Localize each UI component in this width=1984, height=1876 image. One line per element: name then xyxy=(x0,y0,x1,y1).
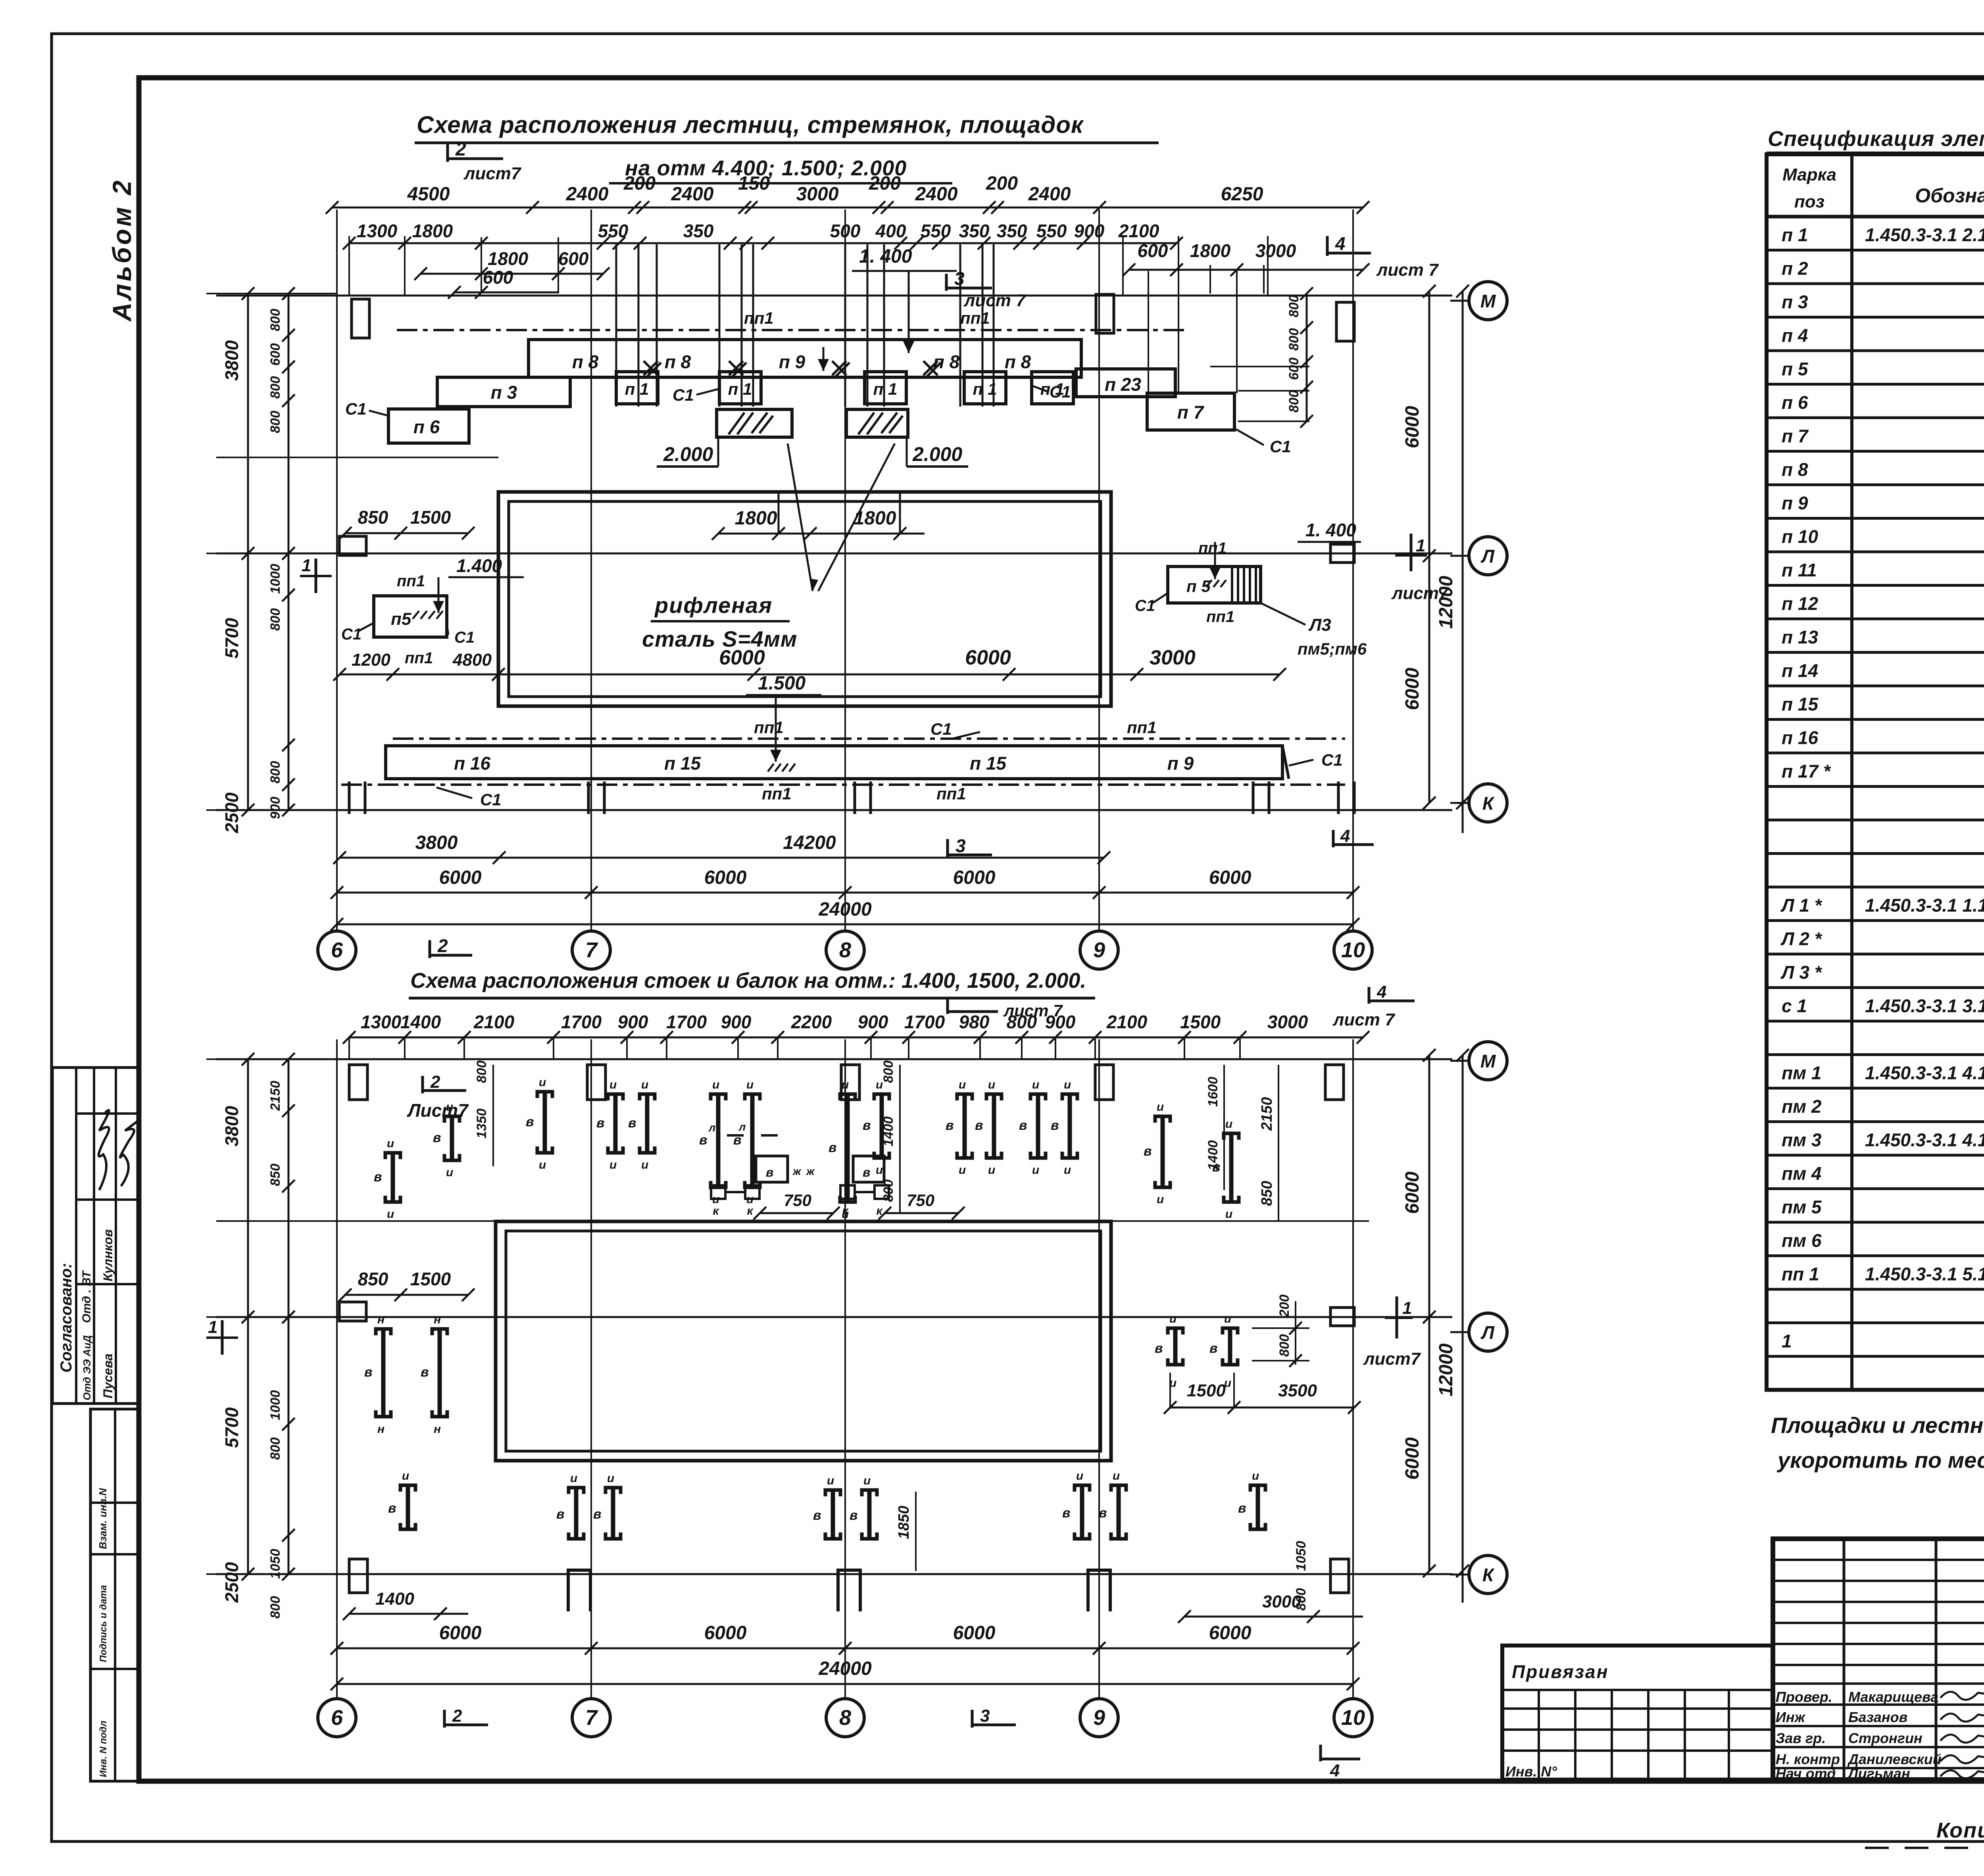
steel post (I-beam) xyxy=(1224,1133,1239,1140)
svg-text:в: в xyxy=(526,1114,534,1129)
svg-text:1400: 1400 xyxy=(375,1589,414,1609)
svg-text:пп1: пп1 xyxy=(1206,608,1234,626)
svg-text:в: в xyxy=(1062,1505,1071,1521)
svg-text:п 1: п 1 xyxy=(1782,225,1808,245)
hatch crosses on walkway xyxy=(644,361,658,375)
svg-text:К: К xyxy=(1482,1565,1495,1585)
svg-text:Схема расположения лестниц: Схема расположения лестниц, стремянок, п… xyxy=(417,111,1084,138)
hatch mark under 1.500 arrow xyxy=(768,764,774,772)
svg-text:п 14: п 14 xyxy=(1782,661,1818,681)
axis row M line (bottom) xyxy=(216,1058,1452,1060)
svg-text:800: 800 xyxy=(268,761,283,783)
svg-text:в: в xyxy=(556,1507,565,1522)
svg-text:Л: Л xyxy=(1480,546,1495,566)
svg-text:Л 1 *: Л 1 * xyxy=(1780,895,1823,916)
svg-text:и: и xyxy=(959,1164,966,1177)
svg-text:4: 4 xyxy=(1340,826,1350,846)
svg-text:в: в xyxy=(975,1118,983,1133)
axis circle 6 xyxy=(318,1699,356,1737)
svg-text:С1: С1 xyxy=(1270,437,1291,456)
svg-text:и: и xyxy=(570,1472,577,1485)
svg-text:Схема расположения стоек и б: Схема расположения стоек и балок на отм.… xyxy=(410,969,1086,993)
svg-text:Альбом 2: Альбом 2 xyxy=(107,178,136,322)
platform П5 right xyxy=(1168,566,1261,603)
svg-text:С1: С1 xyxy=(930,720,952,738)
svg-text:лист 7: лист 7 xyxy=(1376,260,1439,280)
svg-text:1500: 1500 xyxy=(410,1269,451,1289)
svg-text:600: 600 xyxy=(558,248,589,269)
axis line 9 xyxy=(1098,209,1100,933)
svg-text:и: и xyxy=(1032,1164,1039,1177)
steel post (I-beam) xyxy=(745,1094,760,1100)
svg-text:10: 10 xyxy=(1341,1706,1365,1730)
svg-text:550: 550 xyxy=(921,221,951,241)
svg-text:200: 200 xyxy=(1277,1294,1292,1317)
svg-text:в: в xyxy=(421,1365,429,1380)
svg-text:850: 850 xyxy=(358,507,388,528)
svg-text:пм 1: пм 1 xyxy=(1782,1063,1822,1083)
axis row K line xyxy=(216,809,1452,811)
svg-text:в: в xyxy=(829,1140,837,1155)
svg-text:в: в xyxy=(813,1508,821,1523)
svg-text:150: 150 xyxy=(738,173,770,194)
svg-text:и: и xyxy=(387,1137,394,1150)
svg-text:и: и xyxy=(402,1469,409,1482)
svg-text:900: 900 xyxy=(618,1012,648,1032)
column marks at row Л xyxy=(339,536,366,555)
top dim row 1 line xyxy=(332,207,1363,209)
sheet marker 2 (bottom drawing bottom) xyxy=(443,1710,446,1728)
svg-text:600: 600 xyxy=(268,343,283,366)
sub-row line 3800 boundary (top) xyxy=(216,457,498,458)
svg-text:и: и xyxy=(1157,1193,1164,1206)
svg-text:1700: 1700 xyxy=(561,1012,602,1032)
svg-text:и: и xyxy=(539,1076,546,1089)
svg-text:800: 800 xyxy=(268,1596,283,1619)
svg-text:Инж: Инж xyxy=(1776,1709,1806,1725)
svg-text:в: в xyxy=(1019,1118,1027,1133)
svg-text:п 23: п 23 xyxy=(1105,374,1141,395)
small column rects row K bottom xyxy=(349,1559,367,1593)
svg-text:п 13: п 13 xyxy=(1782,627,1818,647)
svg-text:в: в xyxy=(374,1169,382,1185)
steel post (I-beam) xyxy=(1030,1094,1046,1100)
svg-text:н: н xyxy=(377,1423,384,1436)
svg-text:п 3: п 3 xyxy=(1782,292,1808,312)
svg-text:1000: 1000 xyxy=(268,1390,283,1420)
axis circle 6 xyxy=(318,931,356,969)
svg-text:Отд . ВТ: Отд . ВТ xyxy=(80,1270,93,1323)
svg-text:С1: С1 xyxy=(673,386,694,404)
big tank opening (bottom, double rect) xyxy=(496,1221,1111,1461)
extension verticals bottom dim row xyxy=(348,1037,350,1059)
svg-text:к: к xyxy=(713,1204,719,1217)
axis line 9 xyxy=(1098,1039,1100,1700)
svg-text:п 15: п 15 xyxy=(1782,694,1819,714)
steel post (I-beam) xyxy=(640,1094,655,1100)
svg-text:лист7: лист7 xyxy=(463,164,522,183)
svg-text:800: 800 xyxy=(1286,295,1302,317)
svg-text:Л 2 *: Л 2 * xyxy=(1780,929,1823,949)
svg-text:1850: 1850 xyxy=(896,1505,912,1539)
svg-text:и: и xyxy=(1252,1469,1259,1482)
svg-text:в: в xyxy=(850,1508,858,1523)
svg-text:9: 9 xyxy=(1093,938,1105,962)
svg-text:1.450.3-3.1 4.1.2.1.0 -05: 1.450.3-3.1 4.1.2.1.0 -05 xyxy=(1865,1130,1984,1150)
svg-text:12000: 12000 xyxy=(1436,1343,1457,1396)
svg-text:1.450.3-3.1 2.1.1.0.0: 1.450.3-3.1 2.1.1.0.0 xyxy=(1865,225,1984,245)
right vertical dim 12000 (bottom) xyxy=(1462,1055,1464,1603)
svg-text:и: и xyxy=(1064,1164,1071,1177)
svg-text:с 1: с 1 xyxy=(1782,996,1807,1016)
svg-text:1200: 1200 xyxy=(352,650,390,670)
svg-text:п 9: п 9 xyxy=(779,351,806,372)
svg-text:1050: 1050 xyxy=(1294,1541,1309,1571)
svg-text:7: 7 xyxy=(585,1706,598,1730)
svg-text:сталь S=4мм: сталь S=4мм xyxy=(642,626,797,651)
section marker 1 right (bottom) xyxy=(1385,1317,1413,1319)
svg-text:Подпись и дата: Подпись и дата xyxy=(98,1585,109,1662)
svg-text:укоротить по месту.: укоротить по месту. xyxy=(1776,1448,1984,1473)
right sub-dim column 800/800/600/800 xyxy=(1306,294,1308,421)
axis line 6 xyxy=(336,209,338,933)
svg-text:600: 600 xyxy=(1138,240,1168,261)
svg-text:1500: 1500 xyxy=(1180,1012,1221,1032)
column marks at row Л (bottom) xyxy=(339,1302,366,1321)
svg-text:п 5: п 5 xyxy=(1782,359,1809,379)
svg-text:в: в xyxy=(1099,1505,1107,1521)
platform П6 xyxy=(388,409,469,443)
svg-text:2.000: 2.000 xyxy=(912,443,962,465)
svg-text:350: 350 xyxy=(997,221,1027,241)
axis row M line xyxy=(216,295,1452,297)
left extension lines bottom drawing xyxy=(206,1058,337,1060)
spec table grid xyxy=(1767,154,1984,1390)
svg-text:1.400: 1.400 xyxy=(456,555,502,576)
svg-text:пп1: пп1 xyxy=(754,718,784,737)
section marker 1 right xyxy=(1395,554,1427,557)
svg-text:и: и xyxy=(876,1164,883,1177)
svg-text:2100: 2100 xyxy=(1118,221,1159,241)
svg-text:К: К xyxy=(1482,793,1495,814)
svg-text:п 8: п 8 xyxy=(1782,459,1808,480)
svg-text:л: л xyxy=(738,1121,746,1133)
I-beams row Л left xyxy=(376,1329,391,1335)
svg-text:2.000: 2.000 xyxy=(663,443,713,465)
axis line 10 xyxy=(1352,209,1354,933)
svg-text:4800: 4800 xyxy=(452,650,492,670)
svg-text:в: в xyxy=(628,1116,636,1131)
svg-text:8: 8 xyxy=(839,938,851,962)
svg-text:Кулнков: Кулнков xyxy=(101,1229,115,1281)
svg-text:2500: 2500 xyxy=(221,1562,242,1603)
sheet marker 4 bottom drawing top right xyxy=(1368,987,1371,1004)
svg-text:к: к xyxy=(747,1204,754,1217)
axis row Л line xyxy=(216,553,1452,555)
svg-text:в: в xyxy=(863,1165,870,1179)
svg-text:800: 800 xyxy=(268,1437,283,1460)
top dim row 2 line xyxy=(349,242,1177,244)
axis line 7 xyxy=(590,209,592,933)
column marks at row M xyxy=(352,299,369,338)
svg-text:Базанов: Базанов xyxy=(1848,1709,1907,1725)
svg-text:6000: 6000 xyxy=(704,1623,747,1644)
svg-text:Данилевский: Данилевский xyxy=(1847,1751,1942,1767)
stair opening boxes (hatched) xyxy=(717,409,792,437)
svg-text:пм 2: пм 2 xyxy=(1782,1096,1822,1117)
svg-text:пп1: пп1 xyxy=(744,309,774,327)
svg-text:п 6: п 6 xyxy=(1782,392,1808,413)
I-beams row Л right xyxy=(1168,1328,1183,1335)
axis circle Л xyxy=(1450,555,1468,557)
svg-text:и: и xyxy=(1224,1312,1231,1325)
svg-text:4500: 4500 xyxy=(407,184,450,205)
svg-text:Марка: Марка xyxy=(1782,165,1836,184)
svg-text:6000: 6000 xyxy=(1402,668,1423,710)
svg-text:в: в xyxy=(433,1130,441,1145)
svg-text:1.450.3-3.1 4.1.1.1.0 -04: 1.450.3-3.1 4.1.1.1.0 -04 xyxy=(1865,1063,1984,1083)
lower platform strip xyxy=(386,746,1282,779)
svg-text:2200: 2200 xyxy=(791,1012,832,1032)
svg-text:1050: 1050 xyxy=(268,1549,283,1579)
svg-text:пп1: пп1 xyxy=(762,784,792,803)
svg-text:и: и xyxy=(1157,1100,1164,1114)
svg-text:в: в xyxy=(1238,1501,1246,1516)
svg-text:6: 6 xyxy=(331,1706,343,1730)
svg-text:пп1: пп1 xyxy=(1198,540,1227,557)
svg-text:900: 900 xyxy=(1045,1012,1076,1032)
svg-text:лист7: лист7 xyxy=(1391,584,1450,603)
svg-text:4: 4 xyxy=(1335,233,1346,254)
svg-text:п 1: п 1 xyxy=(625,380,649,398)
axis circle К xyxy=(1450,802,1468,804)
svg-text:лист7: лист7 xyxy=(1363,1349,1421,1369)
svg-text:Л: Л xyxy=(1480,1322,1495,1343)
axis circle М xyxy=(1450,1060,1468,1062)
svg-text:1350: 1350 xyxy=(474,1108,489,1139)
svg-text:1.450.3-3.1 1.1.1.0.0 -16: 1.450.3-3.1 1.1.1.0.0 -16 xyxy=(1865,895,1984,916)
svg-text:п 11: п 11 xyxy=(1782,560,1817,580)
approval block Согласовано xyxy=(52,1068,139,1404)
svg-text:Инв. N°: Инв. N° xyxy=(1505,1763,1557,1780)
svg-text:пм5;пм6: пм5;пм6 xyxy=(1298,639,1367,658)
svg-text:п 17 *: п 17 * xyxy=(1782,761,1831,782)
platform П5 left xyxy=(374,596,447,637)
staff signatures xyxy=(1940,1692,1984,1700)
svg-text:Зав гр.: Зав гр. xyxy=(1776,1730,1826,1746)
svg-text:и: и xyxy=(988,1164,995,1177)
svg-text:Л3: Л3 xyxy=(1308,615,1331,635)
svg-text:900: 900 xyxy=(268,797,283,819)
upper walkway band xyxy=(529,340,1081,377)
beam box row M 2 xyxy=(853,1156,884,1182)
svg-text:6000: 6000 xyxy=(1402,1171,1423,1214)
svg-text:2150: 2150 xyxy=(1259,1097,1275,1131)
svg-text:3000: 3000 xyxy=(1255,240,1296,261)
svg-text:в: в xyxy=(766,1165,773,1179)
svg-text:поз: поз xyxy=(1794,192,1824,211)
svg-text:800: 800 xyxy=(268,411,283,433)
axis circle 10 xyxy=(1334,931,1372,969)
svg-text:в: в xyxy=(1209,1341,1218,1356)
axis circle 10 xyxy=(1334,1699,1372,1737)
svg-text:М: М xyxy=(1480,291,1496,311)
svg-text:н: н xyxy=(377,1313,384,1326)
svg-text:6000: 6000 xyxy=(439,867,482,888)
svg-text:1: 1 xyxy=(302,556,311,575)
svg-text:1800: 1800 xyxy=(488,248,529,269)
axis line 6 xyxy=(336,1039,338,1700)
svg-text:200: 200 xyxy=(986,173,1018,194)
axis circle 9 xyxy=(1080,931,1118,969)
svg-text:в: в xyxy=(1144,1144,1152,1159)
column marks at row M (bottom) xyxy=(349,1065,367,1100)
steel post (I-beam) xyxy=(385,1153,400,1159)
steel post (I-beam) xyxy=(957,1094,972,1100)
svg-text:850: 850 xyxy=(358,1269,388,1289)
steel post (I-beam) xyxy=(840,1094,855,1100)
svg-text:Стронгин: Стронгин xyxy=(1848,1730,1922,1746)
svg-text:5700: 5700 xyxy=(221,618,242,659)
svg-text:4: 4 xyxy=(1330,1761,1340,1780)
svg-text:Л 3 *: Л 3 * xyxy=(1780,962,1823,983)
svg-text:10: 10 xyxy=(1341,938,1365,962)
svg-text:6000: 6000 xyxy=(1209,867,1252,888)
svg-text:350: 350 xyxy=(959,221,990,241)
sheet marker 2 bottom drawing xyxy=(421,1076,424,1093)
svg-text:6250: 6250 xyxy=(1221,184,1263,205)
svg-text:п 3: п 3 xyxy=(491,382,517,403)
svg-text:С1: С1 xyxy=(480,790,502,809)
section marker 1 left (bottom) xyxy=(206,1336,238,1339)
bottom dim row line xyxy=(349,1037,1363,1039)
platform П7 xyxy=(1147,393,1234,430)
svg-text:и: и xyxy=(1032,1078,1039,1091)
svg-text:Спецификация элементов к схе: Спецификация элементов к схеме, располож… xyxy=(1768,127,1984,151)
axis circle 8 xyxy=(826,1699,864,1737)
sheet marker 3 bottom xyxy=(946,839,949,858)
svg-text:пп1: пп1 xyxy=(960,309,990,327)
svg-text:550: 550 xyxy=(1036,221,1067,241)
svg-text:п 8: п 8 xyxy=(572,351,599,372)
svg-text:п 6: п 6 xyxy=(413,417,440,437)
svg-text:Привязан: Привязан xyxy=(1512,1661,1609,1682)
П7 leader verticals xyxy=(1148,271,1149,393)
axis line 8 xyxy=(844,209,846,933)
svg-text:Лигьман: Лигьман xyxy=(1847,1765,1910,1782)
svg-text:800: 800 xyxy=(474,1060,489,1083)
svg-text:п5: п5 xyxy=(391,609,411,629)
svg-text:800: 800 xyxy=(1286,328,1302,351)
svg-text:Нач отд: Нач отд xyxy=(1776,1765,1836,1782)
svg-text:пп1: пп1 xyxy=(397,572,425,590)
svg-text:и: и xyxy=(1064,1078,1071,1091)
svg-text:850: 850 xyxy=(1259,1181,1275,1206)
sheet marker 3 xyxy=(945,274,948,291)
svg-text:л: л xyxy=(708,1121,715,1134)
svg-text:и: и xyxy=(1076,1469,1083,1482)
svg-text:пп1: пп1 xyxy=(405,649,433,667)
axis circle М xyxy=(1450,300,1468,302)
section marker 1 left xyxy=(300,575,332,577)
svg-text:850: 850 xyxy=(268,1164,283,1186)
sheet marker 3 (bottom drawing bottom) xyxy=(971,1710,974,1728)
svg-text:2500: 2500 xyxy=(221,792,242,833)
svg-text:п 15: п 15 xyxy=(970,753,1007,774)
svg-text:рифленая: рифленая xyxy=(654,593,773,618)
svg-text:и: и xyxy=(446,1166,453,1179)
svg-text:Обозначение: Обозначение xyxy=(1915,184,1984,207)
svg-text:и: и xyxy=(1225,1118,1232,1131)
svg-text:и: и xyxy=(863,1474,871,1487)
axis line 10 xyxy=(1352,1039,1354,1700)
right vertical dim 12000 xyxy=(1462,291,1464,833)
walkway centreline ПП1 (dash-dot) xyxy=(397,329,1186,331)
svg-text:и: и xyxy=(1113,1469,1120,1482)
svg-text:С1: С1 xyxy=(345,399,367,418)
svg-text:2: 2 xyxy=(430,1072,440,1092)
svg-text:ж: ж xyxy=(806,1165,815,1177)
steel post (I-beam) xyxy=(444,1116,459,1123)
svg-text:600: 600 xyxy=(1286,357,1302,380)
svg-text:Пусева: Пусева xyxy=(101,1354,115,1398)
svg-text:6000: 6000 xyxy=(704,867,747,888)
svg-text:Провер.: Провер. xyxy=(1776,1689,1832,1705)
svg-text:лист 7: лист 7 xyxy=(1332,1010,1396,1029)
svg-text:750: 750 xyxy=(784,1191,811,1210)
svg-text:800: 800 xyxy=(268,309,283,331)
beam box row M xyxy=(756,1156,788,1182)
svg-text:в: в xyxy=(364,1365,373,1380)
svg-text:800: 800 xyxy=(881,1060,896,1083)
svg-text:1500: 1500 xyxy=(410,507,451,528)
axis circle 9 xyxy=(1080,1699,1118,1737)
svg-text:3000: 3000 xyxy=(1150,646,1196,669)
axis circle Л xyxy=(1450,1331,1468,1333)
svg-text:3500: 3500 xyxy=(1278,1381,1317,1400)
svg-text:в: в xyxy=(946,1118,954,1133)
svg-text:1: 1 xyxy=(1416,536,1425,555)
svg-text:1. 400: 1. 400 xyxy=(1305,520,1356,540)
svg-text:1800: 1800 xyxy=(735,508,777,529)
svg-text:С1: С1 xyxy=(341,626,361,643)
svg-text:п 10: п 10 xyxy=(1782,526,1818,547)
svg-text:пм 6: пм 6 xyxy=(1782,1230,1822,1251)
svg-text:980: 980 xyxy=(959,1012,990,1032)
axis line 8 xyxy=(844,1039,846,1700)
svg-text:Взам. инв.N: Взам. инв.N xyxy=(97,1488,109,1549)
svg-text:800: 800 xyxy=(268,608,283,631)
svg-text:2150: 2150 xyxy=(268,1081,283,1111)
steel post (I-beam) xyxy=(1062,1094,1077,1100)
svg-text:1400: 1400 xyxy=(400,1012,441,1032)
svg-text:в: в xyxy=(1051,1118,1059,1133)
svg-text:С1: С1 xyxy=(1135,597,1155,614)
svg-text:1500: 1500 xyxy=(1187,1381,1226,1400)
svg-text:и: и xyxy=(959,1078,966,1091)
svg-text:6: 6 xyxy=(331,938,343,962)
svg-text:3800: 3800 xyxy=(221,340,242,381)
svg-text:800: 800 xyxy=(1007,1012,1037,1032)
right vertical dim 6000/6000 (bottom) xyxy=(1428,1055,1430,1571)
svg-text:1000: 1000 xyxy=(268,564,283,594)
svg-text:6000: 6000 xyxy=(439,1623,482,1644)
stamp left small grid xyxy=(1773,1559,1984,1561)
svg-text:350: 350 xyxy=(683,221,714,241)
svg-text:800: 800 xyxy=(1277,1334,1292,1357)
steel post (I-beam) xyxy=(608,1094,623,1100)
svg-text:и: и xyxy=(607,1472,614,1485)
